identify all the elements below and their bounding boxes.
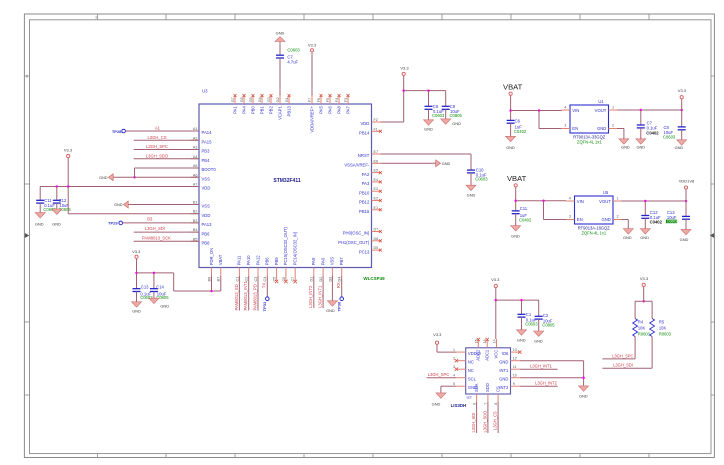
svg-text:IO6: IO6 (502, 351, 509, 356)
pin F1 PB14 (right) (372, 130, 381, 132)
pin 6 SDA (U2 bottom) (476, 394, 478, 402)
node V3.3 out junction (680, 109, 683, 112)
svg-text:C1: C1 (526, 312, 532, 317)
pin 9 INT2 (U2 right) (511, 385, 520, 387)
svg-text:PB9: PB9 (274, 257, 279, 266)
svg-text:PAM8013_SD: PAM8013_SD (234, 284, 239, 310)
node EN branch junction (538, 109, 541, 112)
svg-text:L3GH_SDI: L3GH_SDI (145, 226, 165, 231)
wire U5 GND pin down (622, 219, 629, 221)
svg-text:GND: GND (160, 303, 169, 308)
pin F4 PA8 (top) (338, 96, 340, 105)
svg-text:C0402: C0402 (646, 130, 659, 135)
pin stubs U5 (566, 200, 575, 202)
svg-text:R0603: R0603 (638, 331, 651, 336)
svg-text:PAM8013_INT1: PAM8013_INT1 (243, 280, 248, 310)
svg-text:PA1: PA1 (232, 106, 237, 114)
svg-text:TP28: TP28 (112, 129, 122, 134)
svg-text:GND: GND (467, 193, 476, 198)
pin F2 VDD (right) (372, 121, 381, 123)
svg-text:PB1: PB1 (259, 106, 264, 115)
pin D2 PA0 (bottom) (322, 268, 324, 277)
wire VBAT to VIN (511, 110, 562, 112)
svg-text:VDD: VDD (202, 186, 211, 191)
node VDD1V8 junction (685, 200, 688, 203)
pin G3 PB2 (top) (270, 96, 272, 105)
wire V3.3 to pin F7 (311, 52, 313, 95)
svg-text:PH0(OSC_IN): PH0(OSC_IN) (343, 231, 370, 236)
svg-text:GND: GND (579, 394, 588, 399)
svg-text:2: 2 (612, 124, 614, 128)
svg-text:L3GH_SDI: L3GH_SDI (613, 363, 633, 368)
svg-text:8: 8 (494, 403, 498, 405)
node EN2 branch junction (542, 199, 545, 202)
ground (VSSA, arrow right) (436, 160, 441, 167)
ground (C8 out) (677, 140, 687, 145)
svg-text:PB12: PB12 (359, 200, 370, 205)
pin B5 PB8 (left) (191, 240, 200, 242)
pin A6 VSS (left) (191, 176, 200, 178)
svg-text:C13: C13 (141, 284, 149, 289)
ground (C9) (441, 119, 451, 124)
svg-text:A1: A1 (155, 126, 161, 131)
pin B3 PA13 (left) (191, 222, 200, 224)
svg-text:VCAP1: VCAP1 (277, 106, 282, 120)
capacitor C8 10uF (U1 out) (678, 126, 686, 128)
svg-text:13: 13 (513, 348, 517, 352)
wire net L3GH_CS (pin8 down) (497, 402, 499, 433)
pin 7 SDO (U2 bottom) (487, 394, 489, 402)
svg-text:L3GH_INT2: L3GH_INT2 (308, 285, 313, 308)
svg-text:GND: GND (132, 308, 141, 313)
svg-text:GND: GND (506, 145, 515, 150)
svg-text:10K: 10K (638, 325, 646, 330)
svg-text:L3GH_SDO: L3GH_SDO (146, 153, 169, 158)
wire RX to TP30 (341, 276, 343, 297)
pin E6 VSSA/VREF- (right) (372, 162, 381, 164)
svg-text:C14: C14 (156, 284, 164, 289)
svg-text:3: 3 (569, 215, 571, 219)
wire down to C12 (56, 187, 58, 201)
pin A3 PB3 (left) (191, 149, 200, 151)
svg-text:TP30: TP30 (336, 301, 341, 311)
svg-text:U2: U2 (467, 395, 473, 400)
svg-text:NC: NC (468, 360, 474, 365)
svg-text:ADC1: ADC1 (484, 349, 489, 361)
resistor R5 10K (650, 319, 655, 337)
svg-text:L3GH_CS: L3GH_CS (147, 135, 166, 140)
svg-text:SDO: SDO (485, 383, 490, 392)
svg-text:4.7uF: 4.7uF (287, 59, 298, 64)
svg-text:C6: C6 (515, 118, 521, 123)
svg-text:4: 4 (564, 106, 566, 110)
svg-text:A6: A6 (193, 173, 198, 177)
wire net PAM8013_INT1 (248, 276, 250, 311)
capacitor C10 0.1uF (NRST) (467, 169, 475, 171)
svg-text:L3GH_SPC: L3GH_SPC (428, 372, 449, 377)
wire net L3GH_SDI (pin6 down) (476, 402, 478, 433)
svg-text:R0603: R0603 (659, 331, 672, 336)
capacitor C12 10uF (53, 199, 61, 201)
wire TX to TP31 (266, 276, 268, 297)
svg-text:GND: GND (442, 161, 451, 166)
svg-text:D2: D2 (319, 277, 323, 282)
svg-text:F1: F1 (374, 127, 378, 131)
svg-text:ZQFN-4L 1x1: ZQFN-4L 1x1 (581, 231, 606, 236)
svg-text:GND: GND (35, 222, 44, 227)
svg-text:E5: E5 (374, 169, 379, 173)
svg-text:GND: GND (499, 360, 508, 365)
svg-text:C3: C3 (254, 277, 258, 282)
svg-text:EN: EN (577, 217, 583, 222)
svg-text:C12: C12 (59, 198, 67, 203)
node C13 junction (135, 272, 138, 275)
wire NRST (E7) (380, 153, 471, 155)
wire VDDIO to V3.3 (437, 351, 456, 353)
svg-text:B3: B3 (147, 217, 153, 222)
svg-text:A1: A1 (193, 127, 198, 131)
svg-text:GND: GND (597, 126, 606, 131)
svg-text:D1: D1 (310, 277, 314, 282)
wire rail down to C11 (39, 187, 41, 201)
wire net PAM8013_SD (238, 276, 240, 311)
svg-text:PA13: PA13 (202, 222, 213, 227)
svg-text:G3: G3 (267, 97, 271, 102)
capacitor C12 0.1uF (U5 out) (641, 215, 649, 217)
svg-text:F7: F7 (308, 98, 312, 102)
svg-text:11: 11 (513, 365, 517, 369)
capacitor C7 4.7uF (VCAP1) (276, 54, 284, 56)
svg-text:1: 1 (616, 197, 618, 201)
svg-text:G1: G1 (285, 97, 289, 102)
pin 12 GND (U2 right) (511, 360, 520, 362)
wire net PAM8013_PD (257, 276, 259, 311)
svg-text:R5: R5 (659, 319, 665, 324)
svg-text:E7: E7 (374, 150, 379, 154)
svg-text:PA8: PA8 (336, 106, 341, 114)
svg-text:B2: B2 (193, 210, 198, 214)
regulator U1 RT9013A-33GQZ (570, 105, 609, 133)
svg-text:PA15: PA15 (202, 139, 213, 144)
pin G1 PB13 (top) (288, 96, 290, 105)
svg-text:VBAT: VBAT (507, 174, 527, 183)
svg-text:VOUT: VOUT (599, 199, 611, 204)
svg-text:V3.3: V3.3 (132, 249, 141, 254)
svg-text:PB6: PB6 (202, 231, 211, 236)
svg-text:PA11: PA11 (237, 255, 242, 265)
svg-text:C4: C4 (263, 277, 267, 282)
svg-text:GND: GND (432, 401, 441, 406)
wire VBAT to VIN (516, 200, 566, 202)
svg-text:BOOT0: BOOT0 (202, 167, 217, 172)
wire down to C12 out (644, 201, 646, 216)
capacitor C7 0.1uF (U1 out) (637, 124, 645, 126)
node C7b junction (640, 109, 643, 112)
svg-text:PA6: PA6 (327, 106, 332, 114)
svg-text:GND: GND (511, 233, 520, 238)
svg-text:F5: F5 (326, 98, 330, 102)
svg-text:4: 4 (569, 197, 571, 201)
pin C2 PA10 (bottom) (248, 268, 250, 277)
svg-text:14: 14 (493, 339, 497, 343)
wire down to C14 (153, 273, 155, 289)
svg-text:PDR_ON: PDR_ON (209, 248, 214, 265)
wire net L3GH_SDO (pin7 down) (487, 402, 489, 433)
wire net L3GH_SPC to A3 (134, 149, 199, 151)
svg-text:L3GH_SPC: L3GH_SPC (612, 353, 633, 358)
ground (U1 GND) (619, 139, 629, 144)
svg-text:PA2: PA2 (362, 172, 370, 177)
svg-text:ADC2: ADC2 (476, 349, 481, 361)
svg-text:PA7: PA7 (345, 106, 350, 114)
node pull-up junction (642, 300, 645, 303)
svg-text:PB13: PB13 (286, 106, 291, 117)
wire net PAM8013_SCK to B5 (134, 240, 199, 242)
svg-text:A3: A3 (193, 146, 198, 150)
pin B1 VSS (left) (191, 204, 200, 206)
capacitor C14 10uF (150, 288, 158, 290)
svg-text:GND: GND (424, 127, 433, 132)
svg-text:PAM8013_PD: PAM8013_PD (252, 284, 257, 310)
pin E2 PB12 (right) (372, 200, 381, 202)
capacitor C13 0.1uF (133, 288, 141, 290)
svg-text:C0603: C0603 (287, 48, 300, 53)
wire EN tie (538, 111, 540, 129)
svg-text:EN: EN (572, 126, 578, 131)
ground (C8) (424, 120, 434, 125)
ground (C13 out) (681, 229, 691, 234)
svg-text:GND: GND (534, 339, 543, 344)
pin A7 VDD (left) (191, 186, 200, 188)
ground (U2 pin5) (436, 393, 446, 398)
svg-text:7: 7 (484, 403, 488, 405)
svg-text:VIN: VIN (577, 199, 584, 204)
svg-text:V3.3: V3.3 (400, 66, 409, 71)
testpoint TP30 (340, 297, 344, 301)
svg-text:B5: B5 (193, 237, 198, 241)
svg-text:TP31: TP31 (262, 301, 267, 311)
wire GND to C7 (279, 42, 281, 56)
pin 1 VDDIO (U2 left) (456, 351, 465, 353)
wire rail to R4/R5 (635, 300, 652, 302)
svg-text:10: 10 (513, 374, 517, 378)
svg-text:PA0: PA0 (320, 257, 325, 265)
node BOOT0/VSS junction (133, 176, 136, 179)
capacitor C9 10uF (442, 105, 450, 107)
svg-text:VDD: VDD (360, 121, 369, 126)
ground (C11 U5) (511, 226, 521, 231)
svg-text:F6: F6 (317, 98, 321, 102)
node B6 junction (210, 290, 213, 293)
svg-text:LIS3DH: LIS3DH (451, 403, 467, 408)
svg-text:4: 4 (453, 374, 455, 378)
wire VSS (B1) to GND (128, 204, 199, 206)
node VBAT junction (509, 109, 512, 112)
wire V3.3 down to VDD rail (403, 76, 405, 122)
svg-text:B6: B6 (207, 277, 211, 282)
pin D5 PC13 (right) (372, 249, 381, 251)
testpoint TP31 (266, 297, 270, 301)
svg-text:V3.3: V3.3 (433, 332, 442, 337)
wire V3.3 down to VCC pin (495, 288, 497, 339)
svg-text:C0402: C0402 (519, 218, 532, 223)
node VBAT2 junction (514, 199, 517, 202)
pin E5 PA2 (right) (372, 172, 381, 174)
svg-text:R4: R4 (638, 319, 644, 324)
wire R5 to net L3GH_SDI (651, 337, 653, 369)
svg-text:E2: E2 (374, 197, 379, 201)
wire VOUT to VDD1V8 (622, 200, 687, 202)
wire net L3GH_INT2 (520, 385, 558, 387)
wire down to C7 out cap (640, 110, 642, 125)
capacitor C6 1uF (VBAT in) (507, 119, 515, 121)
svg-text:9: 9 (513, 382, 515, 386)
svg-text:INT2: INT2 (499, 385, 509, 390)
svg-text:GND: GND (52, 222, 61, 227)
pin B6 PDR_ON (bottom) (211, 268, 213, 277)
svg-text:C11: C11 (44, 198, 52, 203)
svg-text:PH1(OSC_OUT): PH1(OSC_OUT) (338, 240, 370, 245)
svg-text:B7: B7 (217, 277, 221, 282)
svg-text:GND: GND (675, 145, 684, 150)
svg-text:GND: GND (452, 121, 461, 126)
node VDD rail junction (402, 89, 405, 92)
pin F6 PA5 (top) (320, 96, 322, 105)
pin E1 PB15 (right) (372, 209, 381, 211)
pin 4 SCL (U2 left) (456, 377, 465, 379)
wire net L3GH_SPC to SCL (427, 377, 457, 379)
svg-text:2: 2 (616, 215, 618, 219)
svg-text:VIN: VIN (572, 108, 579, 113)
svg-text:B: B (26, 75, 28, 79)
pin F7 VDDA/VREF+ (top) (311, 96, 313, 105)
svg-text:PB15: PB15 (359, 209, 370, 214)
pin A4 PB4 (left) (191, 158, 200, 160)
wire B6 stub down (211, 276, 213, 291)
ground (C12 out) (640, 229, 650, 234)
svg-text:U3: U3 (202, 89, 208, 94)
svg-text:D5: D5 (374, 246, 379, 250)
svg-text:C0603: C0603 (475, 176, 488, 181)
wire net L3GH_INT1 (520, 368, 558, 370)
ground (D3 VSS) (327, 301, 337, 306)
svg-text:VDD: VDD (202, 213, 211, 218)
pin A1 PA14 (left) (191, 130, 200, 132)
svg-text:PB4: PB4 (202, 158, 211, 163)
svg-text:L3GH_INT1: L3GH_INT1 (318, 285, 323, 308)
ground (C13) (132, 302, 142, 307)
wire to C1/C2 (496, 299, 539, 301)
svg-text:PAM8013_SCK: PAM8013_SCK (142, 236, 171, 241)
svg-text:PB2: PB2 (268, 106, 273, 115)
pin D1 PA9 (bottom) (313, 268, 315, 277)
wire net L3GH_SDI to B4 (134, 231, 199, 233)
svg-text:V3.3: V3.3 (491, 277, 500, 282)
svg-text:G7: G7 (231, 97, 235, 102)
pin 10 GND (U2 right) (511, 377, 520, 379)
node C14 junction (153, 272, 156, 275)
pin D6 PH1(OSC_OUT) (right) (372, 240, 381, 242)
svg-text:E4: E4 (374, 178, 379, 182)
svg-text:A4: A4 (193, 155, 198, 159)
ground (C2) (534, 331, 544, 336)
wire VBAT down (510, 96, 512, 121)
svg-text:PA14: PA14 (202, 130, 213, 135)
svg-text:PB10: PB10 (359, 190, 370, 195)
node cap branch junction (495, 299, 498, 302)
svg-text:C1: C1 (235, 277, 239, 282)
svg-text:5: 5 (453, 382, 455, 386)
pin E7 NRST (right) (372, 153, 381, 155)
svg-text:VOUT: VOUT (595, 108, 607, 113)
svg-text:L3GH_SPC: L3GH_SPC (146, 144, 168, 149)
svg-text:VDDA/VREF+: VDDA/VREF+ (309, 106, 314, 133)
svg-text:D4: D4 (338, 277, 342, 282)
svg-text:C0805: C0805 (156, 295, 169, 300)
svg-text:RX: RX (336, 282, 341, 288)
svg-text:C0805: C0805 (542, 323, 555, 328)
svg-text:A7: A7 (193, 183, 198, 187)
svg-text:GND: GND (517, 338, 526, 343)
wire GND pin12/pin10 (520, 360, 584, 362)
wire net L3GH_SDO to A4 (134, 158, 199, 160)
svg-text:V3.3: V3.3 (308, 42, 317, 47)
svg-text:NRST: NRST (358, 153, 370, 158)
pin 16 ADC1 (U2 top) (486, 340, 488, 348)
svg-text:C0603: C0603 (432, 113, 445, 118)
pin C6 PC15(OSC32_OUT) (bottom) (285, 268, 287, 277)
ground (U2 GND right) (579, 386, 589, 391)
svg-text:B4: B4 (193, 228, 198, 232)
wire TP29 to B3, net B3 (123, 222, 199, 224)
pin C5 PB9 (bottom) (276, 268, 278, 277)
wire corner down and right to B6/B7 (173, 273, 175, 291)
svg-text:3: 3 (95, 16, 97, 20)
pin B4 PB6 (left) (191, 231, 200, 233)
pin 8 CS (U2 bottom) (497, 394, 499, 402)
svg-text:SDA: SDA (474, 383, 479, 392)
pin 13 IO6 (U2 right) (511, 351, 520, 353)
svg-text:12: 12 (513, 357, 517, 361)
node C8 junction (427, 89, 430, 92)
svg-text:2: 2 (453, 357, 455, 361)
svg-text:SCL: SCL (468, 377, 477, 382)
resistor R4 10K (633, 319, 638, 337)
pin B2 VDD (left) (191, 213, 200, 215)
ground (C7 out) (636, 139, 646, 144)
svg-text:VSS: VSS (202, 176, 211, 181)
node rail/C12 junction (56, 185, 59, 188)
svg-text:L3GH_SDI: L3GH_SDI (471, 413, 476, 433)
svg-text:PB3: PB3 (202, 149, 211, 154)
svg-text:E3: E3 (374, 187, 379, 191)
capacitor C8 0.1uF (425, 105, 433, 107)
wire VSSA/VREF- (E6) (380, 162, 435, 164)
wire net L3GH_INT1 (322, 276, 324, 308)
pin C3 PA12 (bottom) (257, 268, 259, 277)
pin D4 PB7 (bottom) (341, 268, 343, 277)
svg-text:GND: GND (499, 377, 508, 382)
pin 15 ADC2 (U2 top) (477, 340, 479, 348)
capacitor C11 0.1uF (36, 199, 44, 201)
svg-text:VSS: VSS (202, 204, 211, 209)
svg-text:PA12: PA12 (255, 255, 260, 266)
svg-text:PA5: PA5 (318, 106, 323, 114)
svg-text:10K: 10K (659, 325, 667, 330)
pin E3 PB10 (right) (372, 190, 381, 192)
ground (C12) (52, 209, 62, 214)
svg-text:ZQFN-4L 1x1: ZQFN-4L 1x1 (577, 140, 602, 145)
